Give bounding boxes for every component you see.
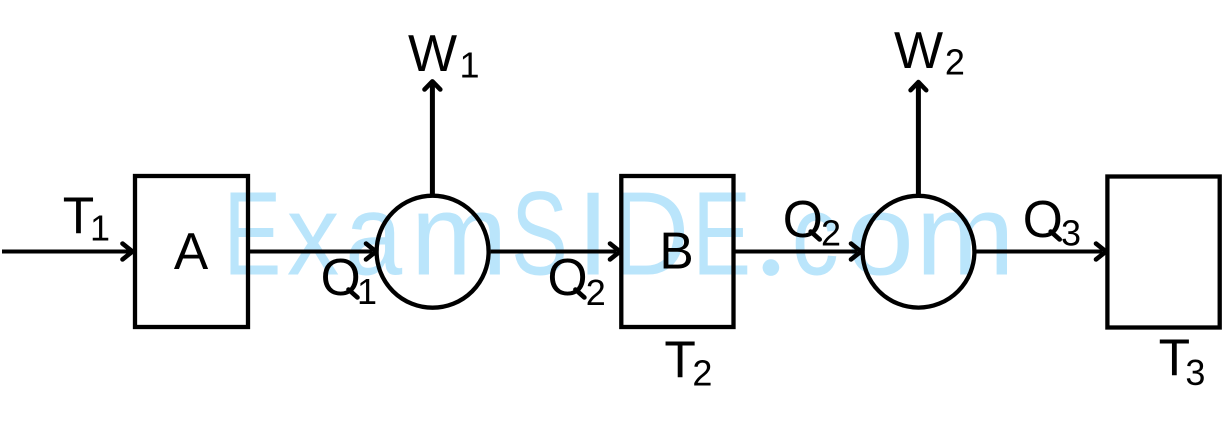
block T3 sink (1107, 177, 1219, 328)
heat engine 2 circle (863, 196, 975, 308)
wire W1 arrow up (430, 84, 435, 196)
arrowhead Q2b (851, 244, 861, 260)
svg-text:W: W (894, 22, 943, 80)
svg-text:T: T (664, 331, 695, 389)
arrowhead Q1 (366, 244, 376, 260)
heat engine 1 circle (377, 196, 489, 308)
svg-text:o: o (846, 172, 914, 300)
svg-text:1: 1 (357, 271, 377, 312)
svg-text:2: 2 (692, 353, 712, 394)
block A (135, 176, 248, 327)
svg-text:A: A (174, 222, 209, 280)
svg-text:E: E (692, 168, 751, 301)
svg-text:W: W (408, 25, 457, 83)
wire Q3 arrow engine 2 to sink (976, 250, 1102, 254)
svg-text:3: 3 (1061, 213, 1081, 254)
svg-text:E: E (223, 168, 281, 301)
arrowhead T1 (123, 244, 133, 260)
watermark ExamSIDE.com (223, 168, 1014, 301)
wire Q1 arrow A to engine 1 (250, 250, 372, 254)
svg-text:3: 3 (1185, 352, 1205, 393)
wire T1 input arrow (2, 250, 129, 254)
svg-text:B: B (659, 222, 693, 280)
arrowhead W2 (911, 82, 927, 90)
arrowhead Q3 (1096, 244, 1106, 260)
arrowhead Q2 (610, 244, 620, 260)
svg-text:2: 2 (586, 272, 606, 313)
svg-text:1: 1 (90, 208, 110, 249)
wire Q2 arrow B to engine 2 (736, 250, 858, 254)
svg-text:1: 1 (460, 45, 480, 86)
svg-text:2: 2 (945, 42, 965, 83)
arrowhead W1 (425, 81, 441, 89)
svg-text:m: m (411, 172, 508, 300)
block B (621, 176, 733, 327)
svg-text:2: 2 (821, 213, 841, 254)
wire Q2 arrow engine 1 to B (491, 250, 616, 254)
wire W2 arrow up (916, 85, 921, 196)
